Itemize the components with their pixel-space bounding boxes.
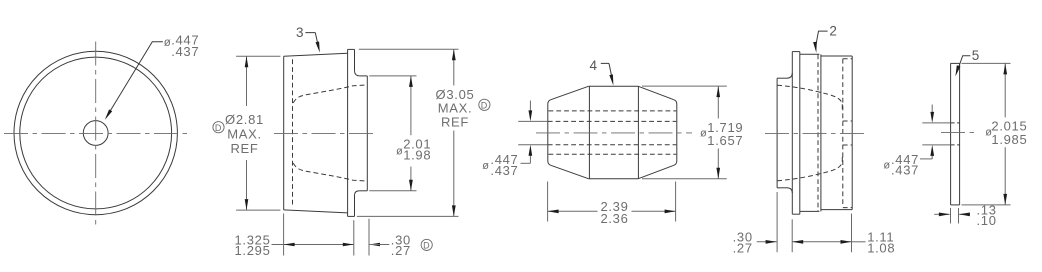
view5 disc top edge <box>951 62 960 64</box>
dim phi1.719 top extension line <box>642 85 727 87</box>
dim v3 phi.447 lower arrowhead <box>529 145 533 156</box>
view3 left tangency edge <box>588 86 590 179</box>
view3 top-right corner fillet <box>674 100 677 104</box>
view3 hidden counterbore lower <box>549 153 677 155</box>
svg-text:.437: .437 <box>490 163 518 178</box>
dim v3 phi.447 upper arrow tail <box>529 101 531 114</box>
view2 hidden bore taper upper <box>293 85 367 103</box>
view1 horizontal centerline <box>4 132 188 134</box>
dim .30 right extension line v2 <box>368 219 370 256</box>
view2 flange top edge <box>348 48 355 50</box>
view4 hidden bottom edge right section <box>843 207 852 209</box>
view4 hidden bore curve upper <box>777 85 842 112</box>
view3 right face edge <box>676 104 678 161</box>
view5 disc bottom edge <box>951 204 960 206</box>
dim v5 phi.447 lower arrowhead <box>930 145 934 156</box>
dim v3 phi.447 upper arrowhead <box>529 110 533 121</box>
view5 disc left edge <box>950 63 952 205</box>
svg-text:1.08: 1.08 <box>867 240 895 255</box>
view3 hidden counterbore upper <box>549 110 677 112</box>
view2 left face edge <box>283 56 285 210</box>
datum circle D bottom <box>421 239 432 250</box>
dim .13 right extension line <box>958 208 960 224</box>
view2 flange bottom edge <box>348 215 355 217</box>
dim v3 phi.447 leader <box>521 162 531 164</box>
dim phi3.05 bottom extension line <box>357 215 459 217</box>
view2 boss top edge <box>360 75 368 77</box>
dim 1.11 text leader stub <box>852 241 866 243</box>
dim .13 left arrowhead <box>939 213 950 217</box>
view2 upper fillet <box>355 71 360 76</box>
dim v5 phi.447 upper arrowhead <box>930 112 934 123</box>
view4 body top edge A <box>800 53 820 55</box>
svg-text:2.36: 2.36 <box>600 211 628 226</box>
view3 top-right chamfer edge <box>638 86 674 100</box>
dim 1.11 left arrowhead <box>792 240 803 244</box>
dim 2.39 right extension line <box>675 182 677 222</box>
dim phi3.05 bottom arrowhead <box>452 205 456 216</box>
dim 1.325 right extension line <box>353 220 355 255</box>
item label 2 leader <box>816 31 828 45</box>
dim 1.11 right arrowhead <box>841 240 852 244</box>
view3 right tangency edge <box>637 86 639 179</box>
view3 hidden bore lower <box>548 144 676 146</box>
dim .30 arrowhead v2 <box>369 243 380 247</box>
dim phi3.05 top arrowhead <box>452 49 456 60</box>
view4 flange right face edge <box>799 52 801 215</box>
svg-text:D: D <box>423 241 430 251</box>
view5 hidden bore upper <box>951 122 960 124</box>
view2 bottom outline edge <box>284 210 348 213</box>
dim 2.39 right arrowhead <box>665 210 676 214</box>
datum circle D left <box>213 122 224 133</box>
view4 hidden bore curve lower <box>777 154 842 181</box>
dim 1.325 text leader stub <box>272 244 284 246</box>
item label 4 leader <box>601 63 613 81</box>
dim .30 dimension line v2 <box>369 244 389 246</box>
dim phi2.015 bottom arrowhead <box>1003 194 1007 205</box>
dim phi2.81 dimension line lower <box>246 160 248 210</box>
item label 3 leader <box>305 33 318 48</box>
view3 horizontal centerline <box>536 132 692 134</box>
dim phi1.719 bottom arrowhead <box>716 168 720 179</box>
dim phi1.719 top arrowhead <box>716 86 720 97</box>
dim v4 .30 dimension line <box>757 241 777 243</box>
dim 2.39 left extension line <box>547 182 549 222</box>
view2 boss bottom edge <box>360 190 368 192</box>
view1 inner rim circle <box>20 57 172 209</box>
dim phi2.81 bottom extension line <box>236 209 280 211</box>
dim v5 phi.447 lower arrow tail <box>931 153 933 159</box>
view4 body bottom edge B <box>821 209 852 211</box>
view4 boss bottom fillet <box>787 188 793 193</box>
view5 disc right edge <box>959 63 961 205</box>
view3 bottom-left chamfer edge <box>551 165 589 179</box>
dim v4 .30 arrowhead <box>766 240 777 244</box>
svg-text:4: 4 <box>590 58 598 73</box>
view3 bottom flat edge <box>589 178 638 180</box>
dim phi2.81 dimension line upper <box>246 56 248 106</box>
view1 center hole circle <box>83 121 108 146</box>
view3 left face edge <box>547 104 549 161</box>
view2 hidden recess edge <box>292 59 294 206</box>
dim phi2.01 dimension line lower <box>410 167 412 191</box>
view4 right face edge <box>851 56 853 210</box>
view2 flange left edge <box>347 49 349 216</box>
svg-text:3: 3 <box>296 25 304 40</box>
view3 hidden bore upper <box>548 120 676 122</box>
svg-text:ø: ø <box>700 127 707 139</box>
dim phi3.05 top extension line <box>359 48 459 50</box>
view1 hole diameter leader line <box>106 42 163 118</box>
view4 body bottom edge A <box>800 210 820 212</box>
dim phi2.015 dimension line lower <box>1004 147 1006 205</box>
dim phi2.015 dimension line upper <box>1004 63 1006 117</box>
dim phi2.81 bottom arrowhead <box>245 199 249 210</box>
view4 flange left edge <box>791 52 793 215</box>
svg-text:2: 2 <box>829 24 837 39</box>
view4 boss top fillet <box>787 73 793 78</box>
view5 horizontal centerline <box>941 131 977 133</box>
dim 1.11 dimension line <box>792 241 851 243</box>
svg-text:1.295: 1.295 <box>235 243 271 258</box>
view4 step edge <box>820 54 822 211</box>
view3 top-left corner fillet <box>548 100 551 104</box>
dim phi2.015 top extension line <box>962 62 1011 64</box>
dim .13 left tail <box>934 213 949 215</box>
dim phi3.05 dimension line lower <box>453 131 455 217</box>
svg-text:.10: .10 <box>977 213 997 228</box>
dim .13 right tail <box>959 213 969 215</box>
dim 1.325 dimension line <box>284 244 354 246</box>
view2 top outline edge <box>284 53 348 56</box>
dim phi2.81 top extension line <box>236 55 280 57</box>
view3 bottom-left corner fillet <box>548 161 551 165</box>
item label 2 leader arrowhead <box>813 42 817 53</box>
dim 2.39 dimension line right <box>632 210 676 212</box>
dim phi1.719 dimension line lower <box>717 149 719 179</box>
svg-text:.27: .27 <box>391 243 411 258</box>
svg-text:ø: ø <box>883 159 890 171</box>
dim 1.325 right arrowhead <box>343 243 354 247</box>
view4 hidden bore lower line <box>843 144 852 146</box>
dim v5 phi.447 lower extension line <box>922 144 950 146</box>
dim v5 phi.447 upper arrow tail <box>931 105 933 116</box>
dim phi2.015 top arrowhead <box>1003 63 1007 74</box>
view3 bottom-right corner fillet <box>674 161 677 165</box>
view3 top flat edge <box>589 85 638 87</box>
dim v4 .30 left extension line <box>776 192 778 252</box>
view2 horizontal centerline <box>274 132 377 134</box>
dim .13 left extension line <box>950 208 952 224</box>
view2 flange right face upper edge <box>354 49 356 71</box>
view4 hidden edge right section <box>842 59 844 207</box>
dim phi2.81 top arrowhead <box>245 56 249 67</box>
svg-text:REF: REF <box>230 141 258 156</box>
view4 hidden bore upper line <box>843 120 852 122</box>
view4 boss bottom edge <box>777 187 786 189</box>
dim 1.325 left extension line <box>283 214 285 256</box>
dim phi2.01 bottom extension line <box>369 190 416 192</box>
dim v3 phi.447 lower arrow tail <box>529 153 531 164</box>
dim phi2.015 bottom extension line <box>962 204 1011 206</box>
svg-text:Ø2.81: Ø2.81 <box>225 112 264 127</box>
dim phi3.05 dimension line upper <box>453 49 455 85</box>
dim phi2.01 bottom arrowhead <box>409 180 413 191</box>
svg-text:ø: ø <box>482 160 489 172</box>
view2 boss right face edge <box>366 76 368 191</box>
view2 flange right face lower edge <box>354 195 356 217</box>
dim .13 right arrowhead <box>959 213 970 217</box>
view4 hidden top edge right section <box>843 58 852 60</box>
dim phi2.01 top arrowhead <box>409 76 413 87</box>
view5 hidden bore lower <box>951 144 960 146</box>
svg-text:.27: .27 <box>733 240 753 255</box>
dim v5 phi.447 leader <box>920 158 932 160</box>
item label 3 leader arrowhead <box>316 42 320 53</box>
svg-text:.437: .437 <box>171 44 199 59</box>
view4 boss top edge <box>777 77 786 79</box>
dim 2.39 dimension line left <box>548 210 598 212</box>
datum circle D right <box>479 99 490 110</box>
item label 4 leader arrowhead <box>609 74 613 85</box>
svg-text:D: D <box>215 123 222 133</box>
view4 hidden edge at step <box>817 54 819 211</box>
svg-text:1.98: 1.98 <box>403 148 431 163</box>
view3 bottom-right chamfer edge <box>638 165 674 179</box>
view4 body top edge B <box>821 55 852 57</box>
view4 boss left face edge <box>776 78 778 188</box>
view4 flange top edge <box>792 51 800 53</box>
item label 5 leader <box>958 56 971 70</box>
svg-text:5: 5 <box>972 48 980 63</box>
view2 lower fillet <box>355 191 360 195</box>
svg-text:D: D <box>481 101 488 111</box>
dim v5 phi.447 upper extension line <box>922 122 950 124</box>
dim 1.325 left arrowhead <box>284 243 295 247</box>
dim 2.39 left arrowhead <box>548 210 559 214</box>
dim v3 phi.447 upper extension line <box>518 120 548 122</box>
view1 vertical centerline <box>95 42 97 225</box>
dim phi2.01 top extension line <box>369 75 416 77</box>
svg-text:.437: .437 <box>891 162 919 177</box>
view4 flange bottom edge <box>792 213 800 215</box>
dim v4 .30 right extension line <box>791 219 793 252</box>
dim 1.11 right extension line <box>851 214 853 253</box>
view1 hole leader arrowhead <box>105 109 112 119</box>
item label 5 leader arrowhead <box>955 65 960 76</box>
view4 horizontal centerline <box>765 132 866 134</box>
dim v3 phi.447 lower extension line <box>518 144 548 146</box>
svg-text:1.985: 1.985 <box>991 132 1027 147</box>
view3 top-left chamfer edge <box>551 86 589 100</box>
dim phi2.01 dimension line upper <box>410 76 412 135</box>
dim phi1.719 dimension line upper <box>717 86 719 118</box>
view2 hidden bore taper lower <box>293 163 367 181</box>
dim phi1.719 bottom extension line <box>642 178 727 180</box>
view1 outer rim circle <box>14 51 177 214</box>
svg-text:1.657: 1.657 <box>707 133 743 148</box>
svg-text:MAX.: MAX. <box>227 127 262 142</box>
svg-text:REF: REF <box>441 114 469 129</box>
